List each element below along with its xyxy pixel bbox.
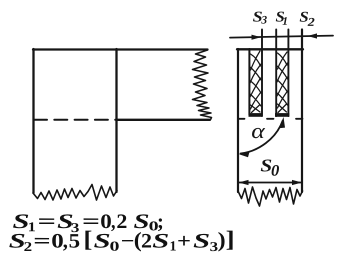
svg-text:1: 1 (169, 240, 176, 255)
svg-text:,: , (63, 230, 68, 252)
svg-text:S: S (94, 230, 111, 252)
svg-text:−: − (121, 231, 135, 253)
svg-text:2: 2 (307, 15, 315, 29)
svg-text:0: 0 (271, 163, 279, 180)
svg-text:,: , (111, 211, 116, 233)
svg-text:3: 3 (260, 14, 267, 26)
svg-text:1: 1 (282, 16, 288, 28)
svg-text:): ) (218, 228, 226, 252)
svg-text:+: + (177, 231, 191, 253)
svg-text:5: 5 (69, 230, 81, 252)
svg-text:=: = (33, 230, 51, 252)
svg-text:2: 2 (141, 231, 152, 253)
svg-text:0: 0 (109, 240, 119, 255)
svg-text:S: S (193, 231, 210, 253)
svg-text:α: α (251, 119, 265, 143)
svg-text:]: ] (226, 227, 235, 252)
svg-text:2: 2 (24, 239, 33, 254)
svg-text:[: [ (83, 227, 92, 252)
svg-text:S: S (152, 231, 169, 253)
